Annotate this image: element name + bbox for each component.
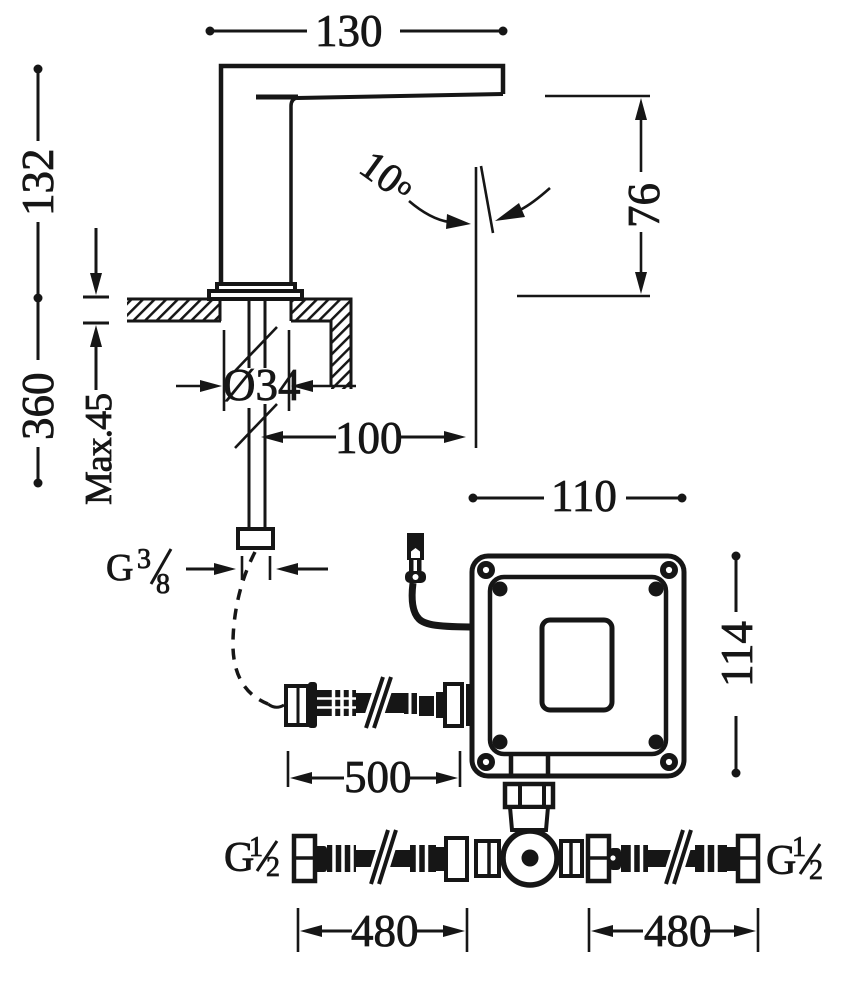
dimension G3/8 arrows (186, 556, 328, 580)
sensor window (542, 620, 612, 710)
svg-text:132: 132 (13, 149, 63, 217)
label G1/2 right (766, 832, 823, 886)
break slashes (371, 830, 396, 884)
angle arc right (495, 188, 550, 221)
crimp right (695, 845, 727, 872)
tube (356, 850, 410, 867)
crimp (327, 845, 356, 872)
braid section left (317, 690, 356, 716)
dimension 360 (13, 298, 63, 488)
crimp ring (308, 682, 317, 728)
faucet body outline (221, 66, 503, 287)
svg-text:Ø34: Ø34 (223, 360, 301, 410)
nut (588, 836, 609, 881)
faucet shank (threaded tube) (249, 299, 265, 529)
T union center dot (522, 850, 539, 867)
svg-text:1: 1 (249, 832, 263, 863)
water stream line (475, 167, 478, 448)
dimension 76 (517, 96, 669, 296)
svg-text:114: 114 (712, 621, 762, 687)
break slashes (666, 830, 691, 884)
sensor cable plug (405, 533, 426, 583)
hose end tilde (268, 704, 284, 707)
T union body circle (503, 831, 557, 885)
tube (648, 850, 695, 867)
inner corner accents (493, 582, 664, 750)
dimension 132 (13, 65, 63, 303)
break slashes (366, 677, 391, 728)
svg-text:76: 76 (619, 183, 669, 228)
dimension 114 (712, 552, 762, 778)
end nut (738, 836, 758, 881)
svg-text:360: 360 (13, 373, 63, 441)
dimension Max.45 (78, 228, 120, 505)
svg-text:8: 8 (156, 569, 170, 600)
box outlet stub (511, 753, 548, 778)
T union neck (510, 807, 548, 830)
dimension D34 (176, 330, 356, 411)
break slash upper (235, 327, 277, 371)
dimension 100 (261, 413, 466, 463)
taper right (436, 847, 444, 871)
corner screw TL (477, 561, 495, 579)
control box inner plate (490, 577, 666, 754)
svg-text:100: 100 (335, 413, 403, 463)
left supply hose (294, 830, 467, 884)
svg-text:500: 500 (344, 752, 412, 802)
svg-text:2: 2 (266, 852, 280, 883)
control box outer (472, 556, 684, 776)
hose nut right (445, 684, 462, 726)
crimp (621, 845, 648, 872)
svg-text:130: 130 (315, 6, 383, 56)
T union left flange (476, 841, 499, 876)
svg-text:3: 3 (137, 544, 151, 575)
dimension 500 (288, 751, 460, 802)
countertop left slab (127, 299, 221, 321)
break slash lower (235, 404, 277, 448)
sensor cable (412, 583, 477, 627)
box inlet tab (468, 686, 487, 724)
fitting rings (404, 693, 417, 714)
crimp right (410, 845, 436, 872)
corner screw BR (660, 753, 678, 771)
dimension 130 (206, 6, 508, 56)
taper with hole (609, 848, 621, 870)
svg-text:Max.45: Max.45 (78, 394, 120, 505)
taper right (727, 847, 737, 871)
T union right flange (561, 841, 582, 876)
dimension 110 (469, 471, 687, 521)
svg-text:2: 2 (809, 855, 823, 886)
end nut (446, 838, 467, 880)
shank end nut G3/8 (238, 529, 273, 548)
corner screw BL (477, 753, 495, 771)
flexible hose dashed (233, 552, 268, 704)
svg-text:G: G (106, 547, 133, 589)
label G3/8 (106, 544, 171, 600)
dimension 480 right (589, 906, 758, 956)
svg-text:110: 110 (551, 471, 617, 521)
angle arc left (409, 201, 471, 229)
label G1/2 left (224, 832, 280, 883)
nut (294, 836, 315, 881)
taper (314, 846, 327, 872)
countertop right slab with return (291, 299, 351, 389)
hose tube (356, 693, 410, 713)
svg-text:480: 480 (644, 906, 712, 956)
dimension 480 left (298, 906, 467, 956)
hose nut left (286, 686, 308, 725)
svg-text:480: 480 (351, 906, 419, 956)
svg-text:1: 1 (792, 832, 806, 863)
tilted stream line 10deg (481, 166, 493, 233)
faucet base flange (209, 284, 302, 299)
corner screw TR (660, 561, 678, 579)
right supply hose (588, 830, 758, 884)
T union top nut (505, 784, 553, 807)
inlet hose 500 assembly (286, 677, 487, 728)
